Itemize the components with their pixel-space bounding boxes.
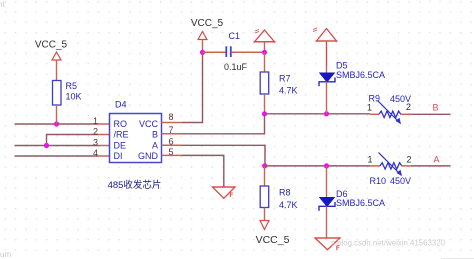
svg-text:2: 2 [93,127,98,137]
svg-text:4.7K: 4.7K [279,86,298,96]
ground (bottom right, below D6) [315,238,340,252]
svg-text:R8: R8 [279,188,291,198]
svg-text:VCC: VCC [139,119,159,129]
junction on DE net below /RE [44,143,49,148]
svg-text:1: 1 [367,103,372,113]
varistor R9 [367,94,411,125]
svg-text:GND: GND [138,151,159,161]
wire B net horizontal [265,113,371,115]
diode D5 (TVS SMBJ6.5CA) [319,61,385,114]
wire A net to edge [411,165,451,167]
wire pin 7 to B node [162,114,265,135]
svg-text:1: 1 [368,155,373,165]
svg-text:DE: DE [114,140,127,150]
wire VCC node to C1 [203,51,226,53]
svg-text:8: 8 [169,112,174,122]
svg-text:R5: R5 [66,81,78,91]
diode D6 (TVS SMBJ6.5CA) [319,166,385,238]
svg-text:__________: __________ [440,250,474,259]
resistor R5 [53,81,82,125]
wire A net horizontal [265,165,371,167]
junction B node at R7 bottom [262,111,267,116]
svg-text:DI: DI [114,151,123,161]
svg-text:VCC_5: VCC_5 [191,18,224,29]
svg-text:4.7K: 4.7K [279,200,298,210]
svg-text:10K: 10K [66,92,82,102]
svg-text:4: 4 [93,148,98,158]
svg-text:VCC_5: VCC_5 [35,40,68,51]
svg-text:3: 3 [93,137,98,147]
junction at C1 / R7 top [262,50,267,55]
svg-text:RO: RO [114,119,128,129]
power port VCC_5 (top-left) [35,40,68,81]
resistor R7 [260,52,297,114]
resistor R8 [260,166,297,221]
IC D4 (485 transceiver) [108,100,162,192]
svg-text:A: A [434,155,440,165]
svg-text:B: B [152,130,158,140]
gnd power port (triangle, above D5) [313,28,338,66]
svg-text:0.1uF: 0.1uF [224,62,248,72]
svg-text:D4: D4 [115,100,127,110]
wire C1 to gnd-triangle node [232,51,265,53]
svg-text:F: F [230,193,234,199]
wire pin 8 to VCC node [162,53,203,124]
wire B net to edge [411,113,451,115]
wire RO net (pin 1 horizontal) [15,123,110,125]
svg-text:450V: 450V [390,176,411,186]
wire DI net (pin 4 horizontal) [15,155,110,157]
svg-text:485收发芯片: 485收发芯片 [108,179,162,191]
svg-text:2: 2 [406,102,411,112]
junction on RO net at R5 [54,121,59,126]
wire pin 5 to gnd [162,155,224,187]
wire pin 6 to A node [162,145,266,166]
svg-text:R10: R10 [370,176,387,186]
svg-text:um: um [0,250,11,259]
svg-text:2: 2 [407,155,412,165]
svg-text:A: A [152,140,158,150]
svg-text:C1: C1 [229,31,241,41]
svg-text:1: 1 [93,116,98,126]
gnd power port (triangle, above R7) [254,30,276,53]
svg-text:VCC_5: VCC_5 [256,234,290,246]
junction B net at D5 [324,111,329,116]
wire /RE net (pin 2 horizontal + vertical drop) [47,134,110,146]
svg-text:nt: nt [0,0,5,9]
varistor R10 [368,153,412,187]
junction A net at D6 [324,163,329,168]
power port VCC_5 (bottom, below R8) [256,221,290,247]
svg-text:SMBJ6.5CA: SMBJ6.5CA [336,70,385,80]
svg-text:SMBJ6.5CA: SMBJ6.5CA [336,198,385,208]
junction VCC node at C1 [200,50,205,55]
wire DE net (pin 3 horizontal) [15,145,110,147]
svg-text:R7: R7 [279,74,291,84]
svg-text:B: B [433,103,439,113]
power port VCC_5 (top-center) [191,18,224,53]
ground (below chip) [213,187,236,199]
svg-text:/RE: /RE [114,130,129,140]
junction A node at R8 top [262,163,267,168]
capacitor C1 [224,31,248,72]
svg-text:s.blog.csdn.net/weixin 4156332: s.blog.csdn.net/weixin 41563320 [331,238,445,248]
svg-text:D5: D5 [336,61,348,71]
